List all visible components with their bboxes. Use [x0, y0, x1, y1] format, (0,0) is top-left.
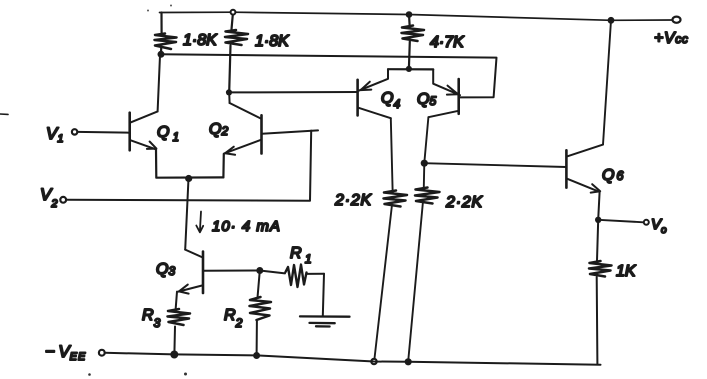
ground: [300, 316, 350, 326]
svg-text:2·2K: 2·2K: [334, 192, 373, 209]
stray mark: speck above top rail: [170, 5, 172, 7]
resistor 1.8K (right, Q2 collector load): [232, 15, 233, 30]
node: dot where right 2.2K meets bottom rail: [405, 358, 412, 365]
wire: Q2 collector node to Q4 base: [229, 91, 357, 93]
svg-text:R2: R2: [224, 307, 243, 330]
wire: R1 down to ground: [323, 274, 324, 317]
transistor Q4: [358, 69, 401, 118]
node: dot at Q3 base / R1 / R2 junction: [256, 267, 263, 274]
wire: bottom -VEE rail: [105, 353, 601, 365]
node: dot at top of 4.7K: [406, 11, 413, 18]
svg-text:Q4: Q4: [381, 90, 400, 111]
node: dot at top of Q6 collector branch: [608, 17, 615, 24]
svg-text:R 1: R 1: [290, 245, 312, 266]
svg-text:4·7K: 4·7K: [430, 34, 465, 51]
terminal V2 and wire to riser: [60, 197, 66, 203]
transistor Q1: [130, 111, 179, 150]
svg-text:1·8K: 1·8K: [255, 33, 290, 50]
wire: +Vcc top rail: [160, 12, 673, 20]
node: dot under left 1.8K: [158, 51, 165, 58]
node: dot where R2 meets -VEE rail: [253, 352, 260, 359]
resistor 2.2K (left, Q4 collector): [391, 118, 393, 190]
wire: Q2 emitter down: [222, 154, 225, 178]
svg-text:1·8K: 1·8K: [183, 32, 218, 49]
node: dot under right 1.8K (Q2 collector node): [226, 89, 232, 95]
wire: Q1 collector up to 1.8K: [158, 56, 160, 112]
stray mark: left edge dash: [0, 113, 8, 115]
svg-text:+Vcc: +Vcc: [654, 30, 688, 47]
svg-text:R3: R3: [142, 307, 161, 330]
svg-text:Q5: Q5: [417, 91, 436, 108]
resistor 1K: [597, 220, 598, 261]
resistor R3 (Q3 emitter): [176, 292, 177, 309]
terminal +Vcc: [673, 17, 681, 23]
node: dot at Q4/Q5 emitter junction: [406, 66, 412, 72]
svg-text:2·2K: 2·2K: [445, 194, 484, 211]
node: dot where R3 meets -VEE rail: [170, 351, 178, 359]
terminal V1: [77, 131, 129, 134]
node: dot at Q5 collector / Q6 base: [421, 160, 428, 167]
wire: Q6 base from Q5 collector node: [424, 163, 566, 167]
transistor Q6: [566, 145, 625, 193]
wire: Q1 collector node to Q5 base (routed right and down): [161, 54, 497, 97]
transistor Q2: [209, 103, 262, 155]
wire: Q4/Q5 emitter bus: [388, 68, 433, 70]
stray mark: dot below bottom rail: [184, 373, 187, 376]
transistor Q5: [417, 69, 460, 117]
node: dot at output node: [595, 217, 601, 223]
svg-text:10· 4 mA: 10· 4 mA: [212, 218, 281, 235]
svg-text:1K: 1K: [616, 263, 637, 280]
current arrow 10.4 mA: [200, 212, 201, 232]
stray mark: speck above top rail left: [147, 10, 149, 12]
resistor 4.7K: [408, 15, 411, 26]
wire: tail current down to Q3 collector (crosses V2 wire): [185, 179, 188, 250]
svg-text:− VEE: − VEE: [45, 342, 86, 363]
wire: Q2 base to V2 riser (with overshoot): [262, 130, 318, 133]
resistor R1 (horizontal): [260, 271, 285, 274]
terminal -VEE: [99, 350, 105, 356]
svg-text:V1: V1: [46, 124, 63, 145]
resistor 2.2K (right, Q5 collector): [424, 117, 428, 163]
wire: Q3 base to bias node: [203, 270, 260, 272]
svg-text:Q6: Q6: [602, 167, 625, 184]
svg-text:Q 1: Q 1: [157, 124, 179, 144]
terminal Vo: [598, 220, 643, 223]
svg-text:Vo: Vo: [651, 216, 667, 236]
resistor 1.8K (left, Q1 collector load): [160, 13, 162, 33]
wire: Q2 collector up to node: [228, 93, 230, 103]
node: ring junction at top of right 1.8K: [231, 10, 236, 15]
wire: Q6 emitter down to output node: [598, 192, 599, 220]
svg-text:Q2: Q2: [209, 121, 228, 138]
resistor R2: [258, 271, 260, 297]
stray mark: dot below -VEE rail: [88, 373, 91, 376]
node: dot at emitter bus / tail: [185, 175, 192, 182]
wire: Q6 collector up to top rail: [603, 20, 611, 144]
svg-text:V2: V2: [40, 185, 57, 210]
wire: Q1 emitter down and emitter bus: [156, 149, 223, 177]
node: ring where left 2.2K meets bottom rail: [371, 359, 376, 364]
svg-text:Q3: Q3: [156, 261, 175, 278]
transistor Q3: [156, 250, 203, 294]
